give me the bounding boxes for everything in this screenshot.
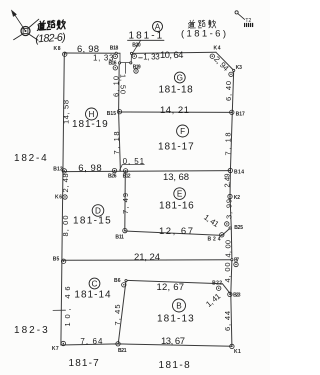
- svg-text:B18: B18: [110, 46, 119, 52]
- wire left boundary K8-K7: [61, 53, 64, 345]
- svg-text:2, 49: 2, 49: [222, 174, 231, 188]
- node E circled: [174, 188, 186, 200]
- node K4: [210, 54, 214, 58]
- svg-text:K3: K3: [236, 65, 243, 71]
- node K7: [61, 341, 65, 345]
- north arrow: [11, 10, 25, 31]
- svg-text:K4: K4: [214, 46, 221, 52]
- svg-text:3, 99: 3, 99: [225, 199, 234, 219]
- svg-text:B14: B14: [234, 169, 244, 175]
- svg-text:181-8: 181-8: [159, 360, 191, 371]
- node B circled: [173, 299, 186, 312]
- svg-text:B26: B26: [108, 173, 117, 179]
- wire 12,67 line B11-B24: [125, 231, 222, 235]
- svg-text:181-1: 181-1: [129, 31, 163, 42]
- svg-text:B5: B5: [53, 256, 60, 262]
- svg-text:4, 00: 4, 00: [223, 240, 232, 258]
- svg-text:0, 51: 0, 51: [123, 157, 145, 166]
- svg-text:(181-6): (181-6): [181, 28, 226, 39]
- svg-text:B: B: [176, 302, 182, 311]
- svg-text:B15: B15: [107, 111, 117, 117]
- wire 21,24 line B5-B7: [62, 259, 232, 262]
- wire top boundary K8-B18: [64, 52, 120, 54]
- node D circled: [92, 205, 104, 217]
- survey points: double circle symbols: [61, 52, 238, 349]
- node B17: [230, 110, 234, 114]
- node B22: [217, 286, 221, 290]
- svg-text:H: H: [89, 110, 95, 119]
- svg-text:B16: B16: [109, 61, 117, 67]
- wire 14,21 line B15-B17: [119, 111, 233, 113]
- node H circled: [86, 108, 98, 120]
- svg-text:D: D: [95, 207, 101, 216]
- node K8: [62, 52, 66, 56]
- svg-text:B12: B12: [123, 173, 131, 179]
- svg-text:B25: B25: [234, 225, 243, 231]
- svg-text:181-7: 181-7: [69, 358, 100, 369]
- wire leader 181-1: [133, 41, 141, 53]
- svg-text:13, 67: 13, 67: [161, 336, 185, 347]
- svg-text:K2: K2: [234, 195, 240, 201]
- svg-text:B17: B17: [236, 112, 245, 118]
- svg-text:181-17: 181-17: [158, 142, 194, 153]
- svg-text:K1: K1: [234, 349, 241, 355]
- wire 6,98/13,68 line B13-B14: [63, 171, 230, 172]
- svg-text:181-16: 181-16: [159, 201, 194, 212]
- svg-text:2, 48: 2, 48: [61, 174, 70, 193]
- kanji handwritten 道路敷 (182-6): [37, 19, 65, 31]
- node G circled: [174, 72, 185, 83]
- node B7: [231, 259, 238, 267]
- node B15: [117, 110, 121, 114]
- svg-text:B19: B19: [133, 65, 141, 71]
- node K3: [229, 69, 235, 76]
- svg-text:7, 18: 7, 18: [112, 132, 121, 155]
- svg-text:B6: B6: [114, 278, 121, 284]
- node B11: [123, 228, 127, 232]
- svg-text:182-3: 182-3: [14, 325, 48, 336]
- node B5: [61, 259, 65, 263]
- svg-text:1, 41: 1, 41: [204, 291, 222, 309]
- svg-text:4, 00: 4, 00: [223, 263, 232, 283]
- node K6: [63, 195, 67, 199]
- svg-text:181-14: 181-14: [74, 289, 111, 300]
- svg-text:181-18: 181-18: [159, 85, 194, 96]
- svg-text:7, 45: 7, 45: [113, 305, 122, 326]
- node B18: [113, 52, 117, 58]
- svg-text:C: C: [92, 280, 98, 289]
- svg-text:B24: B24: [208, 237, 221, 243]
- node B20: [130, 52, 136, 58]
- svg-text:14, 21: 14, 21: [160, 105, 189, 116]
- wire leader 1,33 right: [139, 57, 143, 59]
- wire vertical B18sq-B15-B26: [119, 63, 121, 171]
- node B19: [134, 69, 138, 73]
- svg-text:B20: B20: [132, 43, 141, 49]
- kanji printed 道路敷 (181-6): [188, 20, 195, 28]
- svg-text:10, 64: 10, 64: [160, 50, 183, 61]
- node B26: [112, 168, 116, 172]
- T2 reference point: [235, 11, 245, 20]
- svg-text:6, 44: 6, 44: [223, 311, 232, 331]
- wire diagonal K4-K3: [216, 52, 234, 70]
- node B24: [220, 233, 224, 237]
- svg-text:K8: K8: [54, 46, 61, 52]
- svg-text:B11: B11: [115, 234, 124, 240]
- node B12: [123, 169, 127, 173]
- svg-text:B21: B21: [118, 348, 127, 354]
- wire diagonal B24-B25: [222, 228, 230, 235]
- svg-text:▌▌▌▌▌: ▌▌▌▌▌: [244, 22, 254, 28]
- svg-text:14, 58: 14, 58: [62, 100, 71, 124]
- node B23: [228, 292, 232, 296]
- wire 0,51 underline and leader: [120, 165, 145, 171]
- svg-text:8, 00: 8, 00: [61, 216, 70, 237]
- node B25: [225, 222, 232, 229]
- node square corners: [119, 62, 121, 64]
- node K2: [228, 194, 232, 198]
- svg-text:181-13: 181-13: [157, 314, 194, 325]
- svg-text:1, 41: 1, 41: [202, 213, 221, 230]
- svg-text:(182-6): (182-6): [35, 31, 66, 45]
- svg-text:181-19: 181-19: [72, 119, 108, 130]
- svg-text:6, 40: 6, 40: [224, 81, 233, 101]
- svg-text:1, 33: 1, 33: [143, 53, 160, 62]
- node B14: [228, 168, 232, 172]
- node K1: [230, 344, 234, 348]
- benchmark symbol: [14, 19, 39, 40]
- wire top boundary B20-K4: [132, 52, 217, 53]
- node C circled: [89, 278, 100, 289]
- wire right boundary K3-K1: [230, 70, 234, 346]
- svg-text:B23: B23: [233, 292, 241, 298]
- svg-text:7, 18: 7, 18: [224, 133, 233, 156]
- svg-text:G: G: [177, 74, 183, 83]
- wire 12,67 line B6-B22: [126, 280, 223, 283]
- svg-text:K6: K6: [55, 194, 62, 200]
- node square notch at B18/B20: [120, 53, 132, 62]
- node B13: [62, 169, 66, 173]
- svg-text:10, 46: 10, 46: [63, 287, 72, 327]
- node B16: [113, 66, 117, 70]
- node F circled: [177, 125, 189, 137]
- node B21: [116, 342, 120, 346]
- wire C right boundary B6-B21: [118, 281, 126, 344]
- svg-text:182-4: 182-4: [14, 153, 47, 164]
- svg-text:12, 67: 12, 67: [159, 226, 193, 237]
- svg-text:B22: B22: [212, 280, 222, 286]
- svg-text:E: E: [177, 190, 183, 199]
- svg-text:7, 64: 7, 64: [80, 337, 103, 346]
- wire bottom boundary K7-B21-K1: [61, 344, 232, 346]
- svg-text:12, 67: 12, 67: [157, 282, 185, 293]
- wire tick on left line: [53, 309, 66, 311]
- wire diagonal B22-B23: [223, 284, 231, 295]
- svg-text:181-15: 181-15: [73, 216, 111, 227]
- wire B12-B11 vertical: [124, 171, 127, 231]
- svg-text:2, 94: 2, 94: [212, 55, 231, 74]
- svg-text:B7: B7: [234, 258, 239, 264]
- svg-text:13, 68: 13, 68: [163, 172, 189, 183]
- svg-text:F: F: [180, 127, 185, 136]
- svg-text:6, 98: 6, 98: [78, 163, 101, 174]
- svg-text:K7: K7: [52, 346, 59, 352]
- wire notch stub 1,50: [124, 63, 126, 74]
- svg-text:21, 24: 21, 24: [134, 252, 160, 263]
- node B6: [122, 280, 127, 287]
- node A circled: [153, 22, 163, 32]
- svg-text:1, 50: 1, 50: [119, 74, 128, 94]
- svg-text:B13: B13: [53, 166, 63, 172]
- svg-text:7, 49: 7, 49: [121, 193, 130, 214]
